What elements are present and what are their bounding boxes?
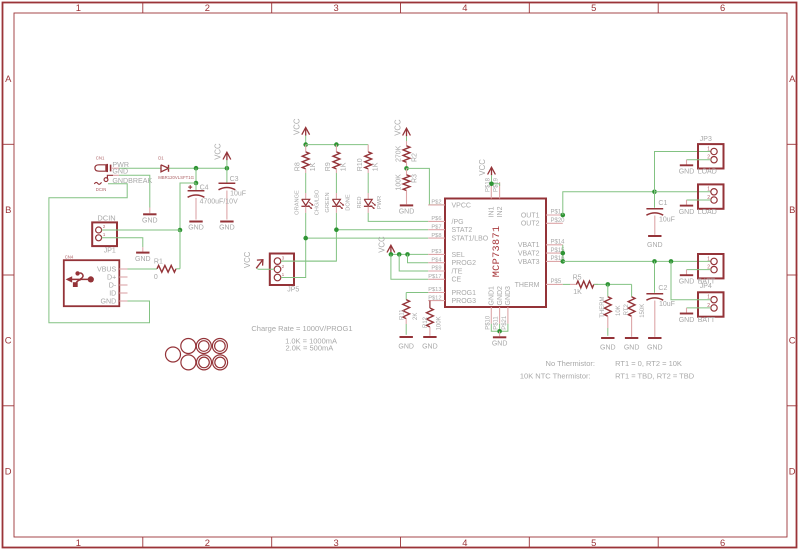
diode D1 (161, 165, 169, 172)
svg-text:IN2: IN2 (497, 206, 504, 217)
power VCC arrow (R2) (403, 128, 411, 135)
wire branch to CE (391, 254, 428, 279)
wire ORANGE LED to STAT1/LBO and JP5 pin1 (306, 213, 429, 238)
LED RED (364, 199, 372, 205)
svg-text:10uF: 10uF (230, 191, 246, 198)
CN1 pin PWR (112, 167, 119, 169)
svg-text:R1: R1 (154, 259, 163, 266)
svg-text:R12: R12 (423, 316, 429, 328)
svg-text:3: 3 (333, 537, 338, 548)
wire branch to /TE (399, 254, 428, 271)
connector BATT1 (698, 254, 724, 278)
U1 pin P$15 VBAT2 (546, 252, 563, 254)
wire CN1 GND pin to ground (119, 175, 150, 207)
svg-text:R2: R2 (412, 153, 419, 162)
svg-text:LOAD: LOAD (698, 169, 717, 176)
svg-text:100K: 100K (395, 174, 402, 191)
LED GREEN (332, 199, 340, 205)
svg-text:GND: GND (679, 279, 695, 286)
fiducial circle top row 3 double (212, 339, 227, 354)
svg-text:No Thermistor:: No Thermistor: (546, 359, 595, 368)
svg-text:GND: GND (101, 297, 117, 305)
svg-text:GND: GND (624, 344, 640, 351)
ground below R3 (400, 204, 413, 206)
svg-text:MCP73871: MCP73871 (492, 226, 503, 278)
svg-text:4: 4 (462, 2, 467, 13)
svg-text:GND: GND (679, 317, 695, 324)
svg-text:CE: CE (452, 277, 462, 284)
svg-text:VBAT1: VBAT1 (518, 242, 540, 249)
svg-text:GREEN: GREEN (325, 192, 331, 212)
svg-text:P$20: P$20 (551, 218, 566, 224)
svg-text:10K: 10K (616, 305, 622, 316)
capacitor C3 (226, 168, 228, 182)
svg-text:P$8: P$8 (431, 233, 441, 239)
svg-text:VBAT3: VBAT3 (518, 259, 540, 266)
svg-text:R11: R11 (399, 309, 405, 320)
svg-text:P$21: P$21 (502, 315, 508, 330)
CN4 pin stubs (119, 268, 127, 270)
wire to LOAD2 pin1 (655, 191, 711, 193)
U1 pin P$5 THERM (546, 283, 563, 285)
svg-text:A: A (5, 73, 12, 84)
svg-text:A: A (789, 73, 796, 84)
connector JP5 (270, 254, 294, 286)
node junction R2/R3 (404, 166, 409, 171)
ground below R12 (423, 336, 436, 338)
svg-text:P$19: P$19 (494, 177, 500, 192)
resistor R11 2K (405, 293, 407, 300)
U1 pin P$7 STAT2 (428, 229, 445, 231)
U1 pin P$11 GND2 (499, 307, 501, 324)
svg-text:270K: 270K (395, 145, 402, 162)
svg-text:P$13: P$13 (428, 287, 441, 293)
U1 pin P$1 OUT1 (546, 214, 563, 216)
wire node down to C4 node (195, 168, 197, 183)
wire VCC to IN1/IN2 (491, 175, 493, 184)
connector BATT2 (698, 292, 724, 316)
svg-text:DCIN: DCIN (96, 187, 107, 192)
wire VCC arrow to node (226, 160, 228, 168)
svg-text:VCC: VCC (293, 118, 302, 135)
svg-text:OUT1: OUT1 (521, 212, 540, 219)
node junction VBAT3 (561, 259, 566, 264)
U1 pin P$8 STAT1/LBO (428, 237, 445, 239)
node junction PROG2 branch (405, 252, 410, 257)
resistor RT1 THERM 10K (607, 284, 609, 296)
svg-text:GND: GND (647, 344, 663, 351)
fiducial circle top row 1 (181, 339, 196, 354)
wire VBAT tie (562, 245, 564, 262)
svg-text:1: 1 (707, 256, 710, 262)
svg-text:C: C (789, 335, 796, 346)
node junction OUT1 (561, 213, 566, 218)
wire JP5 pin3 (281, 260, 337, 262)
ground below C4 (189, 221, 202, 223)
resistor R3 (406, 168, 408, 174)
ground below RT1 (601, 337, 614, 339)
svg-text:SEL: SEL (452, 252, 465, 259)
wire CN1 PWR to D1 (119, 167, 161, 169)
svg-text:GND: GND (399, 209, 415, 216)
svg-text:1: 1 (76, 537, 81, 548)
ground for JP1 (136, 252, 149, 254)
svg-text:C2: C2 (658, 285, 667, 292)
svg-text:RT2: RT2 (624, 304, 630, 316)
svg-text:PWR: PWR (377, 196, 383, 209)
svg-text:P$6: P$6 (431, 216, 441, 222)
svg-text:ID: ID (109, 289, 116, 297)
resistor R2 (406, 136, 408, 141)
svg-text:P$14: P$14 (551, 240, 566, 246)
node junction GND bus (497, 329, 502, 334)
svg-text:GND: GND (142, 218, 158, 225)
wire divider to VPCC pin P$2 (407, 168, 446, 205)
node junction SEL rail (389, 252, 394, 257)
svg-text:4700uF/10V: 4700uF/10V (200, 199, 238, 206)
svg-text:1: 1 (707, 187, 710, 193)
svg-text:PROG2: PROG2 (452, 260, 477, 267)
wire JP1 pin1 to ground (102, 238, 143, 247)
svg-text:GND: GND (679, 169, 695, 176)
svg-text:1: 1 (707, 146, 710, 152)
node junction DCIN pin2 (178, 228, 183, 233)
wire up to JP3 pin1 (655, 152, 711, 192)
wire branch to PROG2 (408, 254, 429, 262)
svg-text:1K: 1K (310, 162, 317, 171)
svg-text:RED: RED (357, 196, 363, 208)
svg-text:B: B (789, 204, 795, 215)
svg-text:CN1: CN1 (96, 155, 105, 160)
ground for BATT1 (687, 269, 711, 271)
capacitor C2 (654, 261, 656, 292)
wire U1 GND pins bus (491, 324, 508, 332)
wire R10 to LED (367, 169, 369, 173)
fiducial circle lone (166, 347, 181, 362)
fiducial circle bottom row 3 double (213, 355, 228, 370)
svg-text:RT1 = 0, RT2 = 10K: RT1 = 0, RT2 = 10K (615, 359, 682, 368)
svg-text:R8: R8 (295, 162, 302, 171)
svg-text:PROG1: PROG1 (452, 290, 477, 297)
svg-text:P$2: P$2 (431, 200, 441, 206)
svg-text:10uF: 10uF (659, 216, 675, 223)
node junction TE branch (397, 252, 402, 257)
U1 pin P$9 /TE (428, 270, 445, 272)
svg-text:5: 5 (591, 2, 596, 13)
wire GNDBREAK loop (49, 184, 150, 323)
svg-text:D: D (5, 465, 12, 476)
resistor R5 (570, 283, 577, 285)
svg-text:10uF: 10uF (659, 301, 675, 308)
svg-text:/TE: /TE (452, 268, 463, 275)
svg-text:JP5: JP5 (287, 287, 299, 294)
capacitor C4 (195, 183, 197, 190)
wire D1 to VCC node (169, 167, 227, 169)
svg-text:6: 6 (720, 537, 725, 548)
svg-text:GND: GND (647, 242, 663, 249)
svg-text:MBR120VLSFT1G: MBR120VLSFT1G (158, 175, 194, 180)
node junction at C3 (225, 166, 230, 171)
node junction GREEN (334, 227, 339, 232)
power VCC arrow (input) (223, 152, 231, 159)
ground below R11 (400, 336, 413, 338)
U1 pin P$6 /PG (428, 220, 445, 222)
svg-text:0: 0 (154, 274, 158, 281)
svg-text:B: B (5, 204, 11, 215)
U1 pin P$12 PROG3 (428, 300, 445, 302)
svg-text:RT1 = TBD, RT2 = TBD: RT1 = TBD, RT2 = TBD (615, 371, 695, 380)
svg-text:GND: GND (492, 340, 508, 347)
svg-text:IN1: IN1 (489, 206, 496, 217)
svg-text:OUT2: OUT2 (521, 221, 540, 228)
node junction R9 (334, 142, 339, 147)
svg-text:D-: D- (109, 281, 117, 289)
U1 pin P$10 GND1 (490, 307, 492, 324)
svg-text:DONE: DONE (345, 194, 351, 211)
wire CN4 VBUS to R1 (128, 268, 158, 270)
power VCC arrow (LED rail) (302, 128, 310, 135)
node junction C4/DCIN (194, 181, 199, 186)
svg-text:P$12: P$12 (428, 295, 441, 301)
svg-text:R5: R5 (573, 275, 582, 282)
wire JP1 pin2 to rail (102, 229, 180, 231)
fiducial circle top row 2 double (196, 339, 211, 354)
svg-text:5: 5 (591, 537, 596, 548)
node junction IN1 (489, 182, 494, 187)
svg-text:P$10: P$10 (485, 315, 491, 330)
svg-text:GND: GND (679, 209, 695, 216)
frame column ticks bottom (142, 537, 144, 548)
svg-text:R9: R9 (325, 162, 332, 171)
svg-text:VBAT2: VBAT2 (518, 251, 540, 258)
U1 pin P$2 VPCC (428, 204, 445, 206)
svg-text:STAT2: STAT2 (452, 227, 473, 234)
resistor R10 (367, 145, 369, 152)
connector CN1 barrel jack (95, 165, 106, 171)
ground for LOAD2 (687, 199, 711, 201)
svg-text:GND3: GND3 (505, 286, 512, 306)
svg-text:1: 1 (76, 2, 81, 13)
svg-text:JP3: JP3 (700, 136, 712, 143)
svg-text:/PG: /PG (452, 219, 464, 226)
CN1 pin GND (107, 175, 113, 179)
wire R8 to LED (305, 169, 307, 173)
power VCC arrow (SEL) (387, 245, 395, 252)
svg-text:P$7: P$7 (431, 224, 441, 230)
svg-text:R3: R3 (412, 174, 419, 183)
ground below RT2 (625, 337, 638, 339)
svg-text:JP1: JP1 (104, 248, 116, 255)
U1 pin P$21 GND3 (507, 307, 509, 324)
svg-text:D+: D+ (107, 273, 116, 281)
svg-text:VCC: VCC (478, 159, 487, 176)
U1 pin P$18 IN1 (490, 182, 492, 199)
svg-text:STAT1/LBO: STAT1/LBO (452, 236, 489, 243)
svg-text:4: 4 (462, 537, 467, 548)
U1 pin P$3 SEL (428, 253, 445, 255)
svg-text:2.0K = 500mA: 2.0K = 500mA (286, 343, 334, 352)
node junction THERM (606, 282, 611, 287)
wire rail down to R1 (179, 230, 181, 269)
connector LOAD1 (698, 144, 724, 168)
U1 pin P$14 VBAT1 (546, 244, 563, 246)
svg-text:C: C (5, 335, 12, 346)
svg-text:CN4: CN4 (65, 254, 74, 259)
wire RED LED to /PG (368, 213, 428, 222)
svg-text:VCC: VCC (243, 251, 252, 268)
svg-text:THERM: THERM (600, 296, 606, 317)
resistor R12 100K (429, 301, 431, 308)
wire node to left rail (180, 183, 196, 230)
wire THERM pin to R5 (563, 283, 570, 285)
svg-text:150K: 150K (640, 304, 646, 318)
svg-text:P$3: P$3 (431, 249, 441, 255)
svg-text:GND: GND (219, 225, 235, 232)
node junction after D1 (194, 166, 199, 171)
wire VCC to SEL rail (391, 253, 428, 254)
ground for LOAD1 (687, 159, 711, 161)
svg-text:VBUS: VBUS (97, 265, 117, 273)
svg-text:R10: R10 (357, 158, 364, 171)
svg-text:GND1: GND1 (489, 286, 496, 306)
connector LOAD2 (698, 184, 724, 208)
svg-text:2: 2 (205, 2, 210, 13)
node junction BATT2 branch (669, 259, 674, 264)
svg-text:C3: C3 (230, 176, 239, 183)
wire VCC to JP5 pin2 (257, 268, 274, 271)
resistor R1 (157, 265, 176, 272)
svg-text:6: 6 (720, 2, 725, 13)
svg-text:P$17: P$17 (428, 274, 441, 280)
USB trident icon (66, 276, 73, 282)
U1 pin P$17 CE (428, 278, 445, 280)
svg-text:D1: D1 (158, 155, 164, 160)
ground below C3 (220, 221, 233, 223)
svg-text:C4: C4 (200, 185, 209, 192)
svg-text:C1: C1 (658, 200, 667, 207)
svg-text:GND: GND (135, 256, 151, 263)
ground below C2 (648, 337, 661, 339)
svg-text:2K: 2K (413, 313, 419, 320)
svg-text:VPCC: VPCC (452, 202, 471, 209)
svg-text:P$4: P$4 (431, 257, 441, 263)
power VCC arrow (JP5) (256, 260, 262, 268)
frame row ticks left (3, 143, 15, 145)
node junction C2 (652, 259, 657, 264)
U1 pin P$4 PROG2 (428, 262, 445, 264)
wire VCC to LED rail (305, 136, 307, 145)
svg-text:VCC: VCC (393, 119, 402, 136)
svg-text:1K: 1K (341, 162, 348, 171)
wire R9 to LED (335, 169, 337, 173)
U1 pin P$16 VBAT3 (546, 260, 563, 262)
svg-text:GND: GND (422, 344, 438, 351)
LED ORANGE (302, 199, 310, 205)
U1 pin P$20 OUT2 (546, 222, 563, 224)
capacitor C1 (654, 192, 656, 208)
svg-text:D: D (789, 465, 796, 476)
svg-text:GND: GND (398, 344, 414, 351)
svg-text:100K: 100K (437, 316, 443, 330)
wire to BATT2 pin1 (671, 261, 711, 299)
ground for BATT2 (687, 307, 711, 309)
svg-text:1K: 1K (573, 289, 582, 296)
CN1 switch contact (104, 178, 108, 182)
wire VBAT to BATT (563, 260, 711, 262)
svg-text:2: 2 (205, 537, 210, 548)
svg-text:CHG/LBO: CHG/LBO (315, 189, 321, 215)
wire LED rail (306, 144, 369, 146)
svg-text:P$1: P$1 (551, 210, 562, 216)
node junction R8 (303, 142, 308, 147)
frame row ticks right (787, 143, 798, 145)
svg-text:THERM: THERM (515, 282, 540, 289)
node junction ORANGE (303, 236, 308, 241)
svg-text:3: 3 (333, 2, 338, 13)
node junction VBAT2 (561, 251, 566, 256)
op-amp U1 MCP73871 body (445, 199, 546, 308)
resistor R9 (335, 145, 337, 152)
svg-text:GND2: GND2 (497, 286, 504, 306)
svg-text:1K: 1K (373, 162, 380, 171)
ground below C1 (648, 235, 661, 237)
wire OUT1 up and right (563, 192, 655, 215)
fiducial circle bottom row 2 double (197, 355, 212, 370)
resistor R8 (305, 145, 307, 152)
U1 pin P$19 IN2 (499, 182, 501, 199)
ground for CN1 GND (143, 213, 156, 215)
svg-text:LOAD: LOAD (698, 209, 717, 216)
svg-text:VCC: VCC (214, 143, 223, 160)
node junction LOAD (652, 190, 657, 195)
svg-text:ORANGE: ORANGE (295, 190, 301, 215)
wire R5 to junction (594, 283, 632, 285)
svg-text:P$11: P$11 (494, 316, 500, 330)
wire JP5 pin1 (281, 277, 306, 279)
ground below U1 (493, 336, 506, 338)
wire PROG1 to R11 (406, 292, 428, 294)
U1 pin P$13 PROG1 (428, 292, 445, 294)
svg-text:Charge Rate = 1000V/PROG1: Charge Rate = 1000V/PROG1 (251, 324, 352, 333)
svg-text:DCIN: DCIN (97, 213, 115, 222)
power VCC arrow (U1 input) (488, 167, 496, 174)
frame column ticks top (142, 3, 144, 14)
wire R1 to rail (176, 268, 180, 270)
resistor RT2 150K (631, 284, 633, 296)
svg-text:VCC: VCC (378, 236, 387, 253)
svg-text:GND: GND (188, 225, 204, 232)
fiducial circle bottom row 1 (181, 355, 196, 370)
svg-text:PROG3: PROG3 (452, 298, 477, 305)
svg-text:10K NTC Thermistor:: 10K NTC Thermistor: (520, 371, 591, 380)
svg-text:P$5: P$5 (551, 279, 562, 285)
svg-text:GND: GND (600, 344, 616, 351)
svg-text:BATT: BATT (698, 317, 716, 324)
svg-text:P$9: P$9 (431, 266, 441, 272)
svg-text:JP4: JP4 (700, 283, 712, 290)
wire GREEN LED to STAT2 and JP5 pin3 (336, 213, 428, 230)
